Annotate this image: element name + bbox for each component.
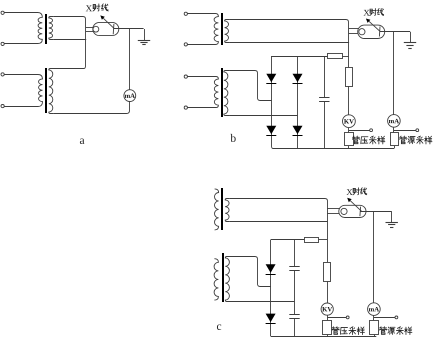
svg-text:mA: mA: [125, 93, 136, 100]
svg-text:mA: mA: [389, 118, 400, 125]
svg-text:c: c: [217, 321, 222, 333]
svg-text:a: a: [79, 135, 84, 147]
svg-text:mA: mA: [369, 306, 380, 313]
svg-text:b: b: [230, 133, 236, 145]
svg-text:X: X: [86, 3, 93, 13]
svg-text:X: X: [363, 8, 370, 18]
svg-text:KV: KV: [322, 306, 332, 313]
svg-text:X: X: [346, 187, 353, 197]
svg-text:KV: KV: [344, 118, 354, 125]
